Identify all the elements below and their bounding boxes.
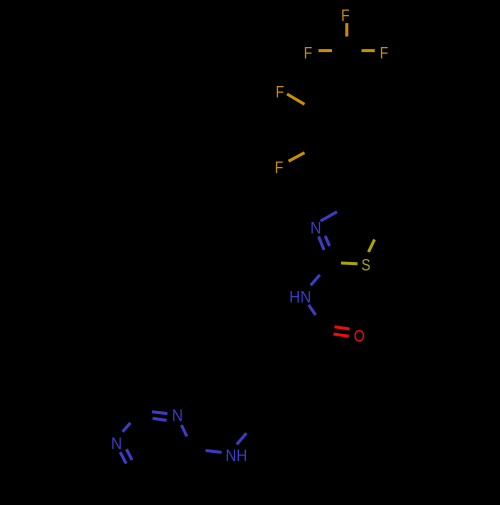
- double bond N1=C9 line b: [325, 236, 329, 246]
- svg-text:F: F: [304, 45, 313, 63]
- double bond C15=N3 inner line: [153, 418, 167, 420]
- bond N3-C16 half: [181, 425, 186, 436]
- bond C4-F5 half: [289, 153, 305, 162]
- bond C3-F4 half: [287, 94, 305, 104]
- svg-text:N: N: [172, 407, 183, 425]
- bond N1-C10 half: [321, 212, 338, 221]
- svg-text:N: N: [111, 435, 122, 453]
- double bond C12=O1 upper line: [335, 327, 350, 329]
- bond C7-F3 half: [362, 49, 375, 52]
- svg-text:F: F: [341, 7, 350, 25]
- svg-text:F: F: [380, 45, 389, 63]
- svg-text:O: O: [354, 327, 365, 345]
- double bond C15=N3 main line: [152, 412, 167, 414]
- bond C7-F1 half: [345, 23, 348, 36]
- double bond C12=O1 lower line: [334, 334, 349, 336]
- svg-text:F: F: [275, 159, 284, 177]
- bond C7-F2 half: [319, 49, 333, 52]
- svg-text:N: N: [310, 220, 321, 238]
- bond N5-C14 half: [237, 433, 247, 444]
- svg-text:S: S: [361, 256, 370, 274]
- bond N2-C9 half: [311, 275, 320, 286]
- bond N2-C12 half: [309, 305, 316, 315]
- bond N4-C15 half: [123, 423, 131, 432]
- bond S1-C9 half: [341, 262, 358, 266]
- bond N5-C16 half: [206, 451, 222, 453]
- svg-text:F: F: [276, 83, 285, 101]
- svg-text:NH: NH: [226, 447, 248, 465]
- svg-text:HN: HN: [289, 289, 311, 307]
- double bond N4=C17 main line: [120, 452, 126, 463]
- double bond N4=C17 inner line: [127, 449, 133, 460]
- double bond N1=C9 line a: [319, 236, 324, 250]
- bond S1-C11 half: [369, 240, 375, 253]
